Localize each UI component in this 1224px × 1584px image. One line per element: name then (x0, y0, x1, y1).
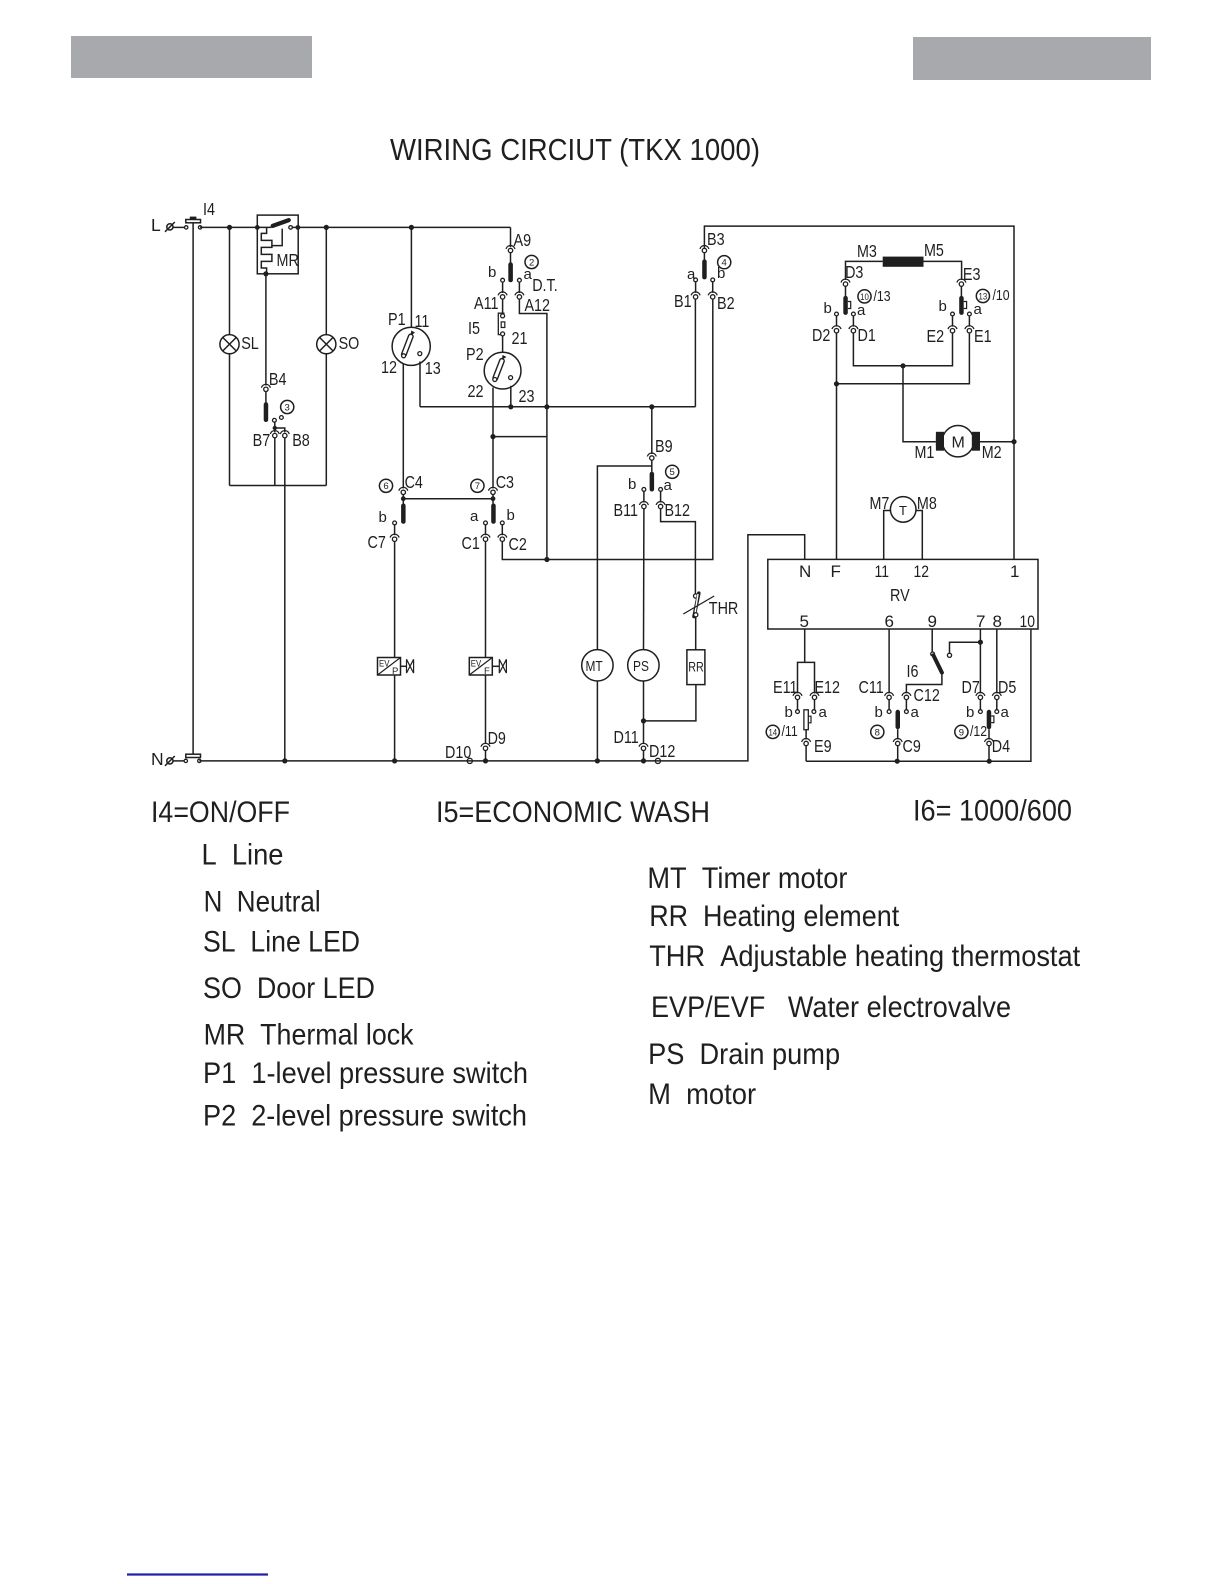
wire B8 down to N (284, 438, 286, 761)
header gray bar right (913, 37, 1151, 80)
wire P2 pin23 down (510, 386, 512, 407)
terminal A12 (515, 292, 550, 315)
wire MR to B4 (265, 274, 267, 386)
svg-text:5: 5 (800, 612, 809, 631)
terminal A11 (474, 292, 507, 313)
wire MT to N (596, 681, 598, 761)
svg-text:b: b (939, 298, 947, 315)
svg-text:12: 12 (914, 562, 930, 581)
terminal B7 (253, 430, 280, 450)
svg-text:A11: A11 (474, 293, 499, 313)
header gray bar left (71, 36, 312, 78)
svg-text:L Line: L Line (202, 839, 284, 872)
lamp SL (220, 227, 259, 485)
svg-text:22: 22 (468, 381, 484, 401)
wire RV pin5 to E11/E12 (798, 629, 815, 693)
wire RV pin8 to D5 (996, 629, 998, 693)
wire PS to D11 (643, 681, 645, 744)
wire C2 to B2 lower link (502, 299, 713, 560)
svg-text:WIRING CIRCIUT (TKX 1000): WIRING CIRCIUT (TKX 1000) (390, 132, 760, 167)
svg-text:A12: A12 (525, 295, 551, 315)
wire I4 mechanical link (vertical to N pole) (192, 223, 194, 754)
svg-text:B3: B3 (707, 229, 725, 249)
wire B7 down (274, 438, 276, 486)
wire D11 to N (643, 751, 645, 761)
terminal B12 (656, 491, 690, 520)
svg-text:P1: P1 (388, 309, 406, 329)
wire L line I4 to MR (200, 226, 271, 228)
wire N line (199, 535, 804, 761)
contact B3 (4) (687, 229, 731, 283)
svg-text:M1: M1 (915, 442, 935, 462)
svg-text:23: 23 (519, 386, 535, 406)
svg-text:EV: EV (379, 659, 390, 670)
terminal C7 (368, 532, 400, 552)
terminal E12 (810, 677, 840, 700)
svg-text:N: N (799, 562, 811, 581)
wire D4 to bottom rail (988, 746, 990, 762)
svg-text:b: b (875, 704, 883, 721)
wire to motor M1 (903, 366, 936, 442)
thermal protector T M7-M8 (870, 493, 937, 559)
svg-text:SL: SL (241, 333, 259, 353)
wire down to A9 (510, 227, 512, 247)
svg-text:7: 7 (475, 481, 480, 492)
contact A9 (2) with D.T. (488, 230, 558, 295)
svg-text:b: b (717, 265, 725, 282)
svg-text:B12: B12 (665, 500, 691, 520)
svg-text:M8: M8 (917, 493, 937, 513)
junction P1 branch (409, 225, 414, 230)
svg-text:MT: MT (586, 659, 603, 675)
contact E (14/11) (766, 700, 827, 740)
wire up to B1 (694, 299, 696, 407)
svg-text:D9: D9 (488, 728, 506, 748)
svg-text:SO: SO (339, 333, 360, 353)
wire SL-SO bottom (230, 485, 327, 487)
svg-text:B8: B8 (292, 430, 310, 450)
svg-text:D5: D5 (998, 677, 1016, 697)
svg-text:I5=ECONOMIC WASH: I5=ECONOMIC WASH (436, 796, 710, 829)
svg-text:E11: E11 (773, 677, 798, 697)
svg-text:6: 6 (383, 481, 388, 492)
svg-text:N: N (151, 749, 164, 769)
timer motor MT (582, 650, 613, 681)
svg-text:C4: C4 (405, 472, 424, 492)
wire B12 to THR (661, 509, 696, 594)
svg-text:C11: C11 (859, 677, 884, 697)
svg-text:7: 7 (976, 612, 985, 631)
terminal C11 (859, 677, 894, 700)
svg-text:SL Line LED: SL Line LED (203, 926, 360, 959)
svg-text:6: 6 (885, 612, 894, 631)
svg-text:a: a (470, 508, 479, 525)
svg-text:B2: B2 (717, 293, 735, 313)
svg-text:b: b (824, 300, 832, 317)
wire D9 to N (485, 751, 487, 761)
switch I4 (neutral pole) (184, 754, 201, 762)
wire top right B3 to pin1 (704, 226, 1014, 559)
thermal lock MR (255, 215, 300, 276)
motor field winding M3-M5 (846, 240, 962, 280)
svg-text:3: 3 (285, 402, 290, 413)
switch I5 economic wash (468, 299, 528, 348)
svg-text:M3: M3 (857, 241, 877, 261)
svg-text:THR: THR (709, 598, 739, 618)
svg-text:I4=ON/OFF: I4=ON/OFF (151, 796, 290, 829)
bottom rail to pin10 (806, 629, 1031, 761)
svg-text:D1: D1 (858, 325, 876, 345)
terminal C9 (893, 729, 921, 756)
wire D2 to RV pin F (836, 333, 838, 560)
terminal E9 (802, 730, 832, 756)
svg-text:E2: E2 (927, 326, 945, 346)
svg-text:8: 8 (875, 727, 880, 738)
svg-text:MR: MR (277, 250, 299, 270)
svg-text:14: 14 (768, 727, 777, 738)
terminal B2 (708, 282, 734, 313)
svg-text:B4: B4 (269, 369, 287, 389)
heating element RR (687, 650, 705, 685)
terminal D5 (992, 677, 1016, 700)
svg-text:M motor: M motor (648, 1078, 756, 1111)
svg-text:E3: E3 (963, 264, 981, 284)
svg-text:a: a (911, 704, 920, 721)
svg-text:D12: D12 (649, 741, 675, 761)
terminal B11 (614, 491, 649, 520)
svg-text:B7: B7 (253, 430, 271, 450)
svg-text:11: 11 (875, 562, 890, 581)
pressure switch P1 (381, 227, 441, 378)
wire C4-C3 top link (403, 498, 493, 500)
wire E9 to bottom rail (805, 746, 807, 762)
svg-text:a: a (524, 266, 533, 283)
terminal C2 (498, 534, 527, 554)
terminal D1 (849, 316, 876, 345)
svg-text:M2: M2 (982, 442, 1002, 462)
svg-text:B1: B1 (674, 291, 692, 311)
svg-text:/13: /13 (874, 288, 891, 305)
svg-text:10: 10 (1020, 612, 1036, 631)
svg-text:P1 1-level pressure switch: P1 1-level pressure switch (203, 1057, 528, 1090)
contact E3 (13/10) (939, 264, 1010, 318)
svg-text:9: 9 (928, 612, 937, 631)
wire RV pin6 to C11 (888, 629, 890, 693)
wire C4 b to C7 (394, 525, 396, 535)
wire L terminal to I4 (173, 226, 185, 228)
pressure switch P2 (466, 336, 535, 406)
wire net P1-13/B9 horizontal (420, 406, 695, 408)
switch I6 1000/600 (907, 629, 984, 681)
svg-text:RR: RR (688, 659, 704, 675)
node N terminal (151, 749, 175, 769)
svg-text:D3: D3 (845, 262, 863, 282)
svg-text:RR Heating element: RR Heating element (649, 900, 899, 933)
svg-text:/10: /10 (993, 287, 1010, 304)
svg-text:M5: M5 (924, 240, 944, 260)
svg-text:M7: M7 (870, 493, 890, 513)
svg-text:9: 9 (959, 727, 964, 738)
svg-text:b: b (507, 507, 515, 524)
svg-text:12: 12 (381, 357, 397, 377)
svg-text:a: a (857, 302, 866, 319)
timer RV box (768, 559, 1038, 631)
wire C3 a to C1 (485, 525, 487, 535)
svg-text:I5: I5 (468, 318, 480, 338)
svg-text:C3: C3 (496, 472, 514, 492)
svg-text:I6: I6 (907, 661, 919, 681)
wire B11 to PS (643, 509, 645, 650)
wire C9 to bottom rail (897, 746, 899, 762)
contact C3 (7) (470, 472, 515, 525)
svg-text:11: 11 (415, 311, 430, 331)
junction SO branch (324, 225, 329, 230)
footer blue line (127, 1573, 268, 1575)
wire MT to B9 (597, 466, 651, 650)
wire E1 to D2 line (837, 333, 970, 384)
svg-text:C7: C7 (368, 532, 386, 552)
svg-text:C2: C2 (509, 534, 527, 554)
terminal E1 (965, 316, 992, 346)
svg-text:b: b (785, 704, 793, 721)
water electrovalve EVP (378, 541, 414, 763)
wire N terminal to button (173, 760, 184, 762)
contact D3 (10/13) (824, 262, 891, 319)
wire P2 pin22 down to C3 (492, 388, 494, 489)
svg-text:a: a (819, 704, 828, 721)
terminal C1 (462, 533, 491, 553)
svg-text:b: b (379, 509, 387, 526)
wire THR to RR (695, 617, 697, 650)
contact D (9/12) (955, 700, 1010, 740)
terminal B1 (674, 282, 700, 311)
svg-text:b: b (966, 704, 974, 721)
drain pump PS (628, 650, 659, 681)
svg-text:E9: E9 (814, 736, 832, 756)
svg-text:a: a (974, 301, 983, 318)
svg-text:C9: C9 (903, 736, 921, 756)
svg-text:I4: I4 (203, 199, 215, 219)
svg-text:b: b (488, 264, 496, 281)
svg-text:EV: EV (471, 659, 482, 670)
wire RV pin7 to D7 (979, 629, 981, 693)
wire B4 to B7/B8 (275, 422, 285, 432)
svg-text:C1: C1 (462, 533, 480, 553)
water electrovalve EVF (469, 541, 506, 744)
svg-text:/12: /12 (970, 723, 987, 740)
svg-text:D10: D10 (445, 742, 472, 762)
wire P1 pin12 to C4 (402, 364, 404, 489)
svg-text:P2 2-level pressure switch: P2 2-level pressure switch (203, 1100, 527, 1133)
terminal C12 (902, 685, 940, 710)
svg-text:P2: P2 (466, 344, 484, 364)
contact C4 (6) (379, 472, 424, 526)
svg-text:I6= 1000/600: I6= 1000/600 (913, 795, 1072, 828)
wire L line MR to A9 corner (292, 226, 510, 228)
terminal B8 (280, 430, 310, 450)
svg-text:B11: B11 (614, 500, 639, 520)
svg-text:B9: B9 (655, 436, 673, 456)
svg-text:a: a (664, 477, 673, 494)
wire D1 to E2 (853, 333, 952, 366)
svg-text:8: 8 (993, 612, 1002, 631)
wire A12 down right and to bottom junctions (519, 299, 547, 560)
svg-text:N Neutral: N Neutral (204, 886, 321, 919)
junction SL branch (227, 225, 232, 230)
contact C (8) (871, 700, 920, 739)
svg-text:E1: E1 (974, 326, 992, 346)
terminal D9 (481, 728, 506, 751)
svg-text:A9: A9 (514, 230, 532, 250)
svg-text:PS: PS (633, 659, 649, 675)
thermostat THR (683, 593, 738, 618)
svg-text:D4: D4 (992, 736, 1011, 756)
terminal D4 (985, 729, 1011, 756)
terminal D10 on N line (445, 742, 472, 764)
terminal E2 (927, 316, 958, 346)
switch I4 (line pole) (185, 199, 216, 229)
svg-text:T: T (899, 503, 907, 518)
svg-text:EVP/EVF Water electrovalve: EVP/EVF Water electrovalve (651, 991, 1011, 1024)
wire RR to PS line (644, 685, 696, 721)
wire A9 b to A11 (502, 282, 504, 293)
wire A9 a to A12 (518, 282, 520, 293)
terminal D12 on N line (649, 741, 675, 764)
svg-text:D11: D11 (614, 727, 639, 747)
svg-text:RV: RV (890, 585, 910, 605)
svg-text:F: F (831, 562, 841, 581)
svg-text:a: a (1001, 704, 1010, 721)
wire C12 to I6 (906, 674, 942, 693)
svg-text:/11: /11 (782, 723, 798, 740)
svg-text:D7: D7 (962, 677, 980, 697)
wire C3 b to C2 (501, 525, 503, 535)
svg-text:C12: C12 (914, 685, 940, 705)
node L terminal (151, 215, 175, 235)
terminal D7 (962, 677, 985, 700)
svg-text:a: a (687, 266, 696, 283)
svg-text:21: 21 (512, 328, 528, 348)
svg-text:THR Adjustable heating thermo: THR Adjustable heating thermostat (649, 940, 1080, 973)
svg-text:MR Thermal lock: MR Thermal lock (204, 1018, 414, 1051)
svg-text:D.T.: D.T. (532, 275, 558, 295)
svg-text:b: b (628, 476, 636, 493)
svg-text:D2: D2 (812, 325, 830, 345)
svg-text:SO Door LED: SO Door LED (203, 972, 375, 1005)
svg-text:13: 13 (425, 358, 441, 378)
terminal D2 (812, 316, 841, 345)
svg-text:MT Timer motor: MT Timer motor (647, 862, 847, 895)
contact B4 (3) (261, 369, 293, 422)
terminal E11 (773, 677, 802, 700)
svg-text:E12: E12 (815, 677, 841, 697)
terminal D11 (614, 727, 649, 751)
lamp SO (317, 227, 360, 485)
svg-text:PS Drain pump: PS Drain pump (648, 1038, 840, 1071)
svg-text:1: 1 (1010, 562, 1019, 581)
svg-text:L: L (151, 215, 161, 235)
wire P1 pin13 down (419, 362, 421, 407)
wire P2 pin22 junction to A12 line (493, 436, 547, 438)
motor M (915, 426, 1015, 463)
contact B9 (5) (628, 407, 679, 494)
svg-text:M: M (952, 435, 965, 452)
